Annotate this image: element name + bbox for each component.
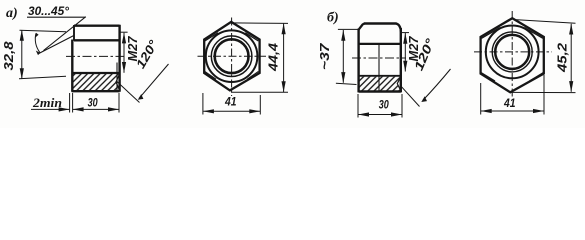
dim 41 (A) right extension: [259, 95, 261, 115]
dim 30 (B) right extension line: [401, 94, 403, 118]
svg-text:б): б): [327, 11, 339, 26]
chamfer circle B: [486, 26, 539, 79]
chamfer note shelf line: [27, 16, 86, 18]
nut A side view: axis centerline: [66, 55, 124, 57]
nut B thread runout line: [378, 45, 380, 92]
dim 30 (A) line with arrows: [73, 108, 119, 110]
dim 32,8 line with arrows: [21, 30, 23, 79]
nut B side view: top flat edge: [364, 22, 397, 24]
nut A thread countersink edges: [116, 73, 120, 90]
nut A side view: left edge: [71, 40, 73, 92]
svg-text:30: 30: [379, 98, 389, 112]
svg-text:а): а): [6, 6, 18, 21]
nut B side view: bottom edge: [359, 90, 401, 92]
corner chamfer cut lower-left B: [481, 72, 495, 81]
centerline vertical B hex: [511, 11, 513, 97]
dim 2min extension line: [69, 93, 71, 113]
svg-text:~37: ~37: [318, 42, 332, 70]
dim 45,2 top extension: [513, 20, 576, 24]
dim 30 (B) line with arrows: [358, 114, 401, 116]
corner chamfer cut upper-left B: [482, 28, 501, 39]
svg-text:2min: 2min: [32, 96, 62, 110]
thread hole circle A: [215, 39, 249, 73]
dim 41 (A) left extension: [202, 93, 204, 115]
dim 30 (A) left extension line: [72, 93, 74, 113]
thread hole circle B: [495, 35, 529, 69]
dim 41 (A) line with arrows: [203, 110, 260, 112]
nut A side view: thread band top edge: [72, 72, 120, 74]
nut B side view: right edge: [400, 28, 402, 92]
dim 41 (B) left extension: [480, 83, 482, 115]
svg-text:45,2: 45,2: [556, 43, 570, 73]
dim M27 (B) extension line: [401, 32, 409, 34]
dim 41 (B) line with arrows: [481, 110, 544, 112]
corner chamfer cut upper-left A: [205, 33, 218, 41]
nut A thread band hatching: [73, 74, 119, 90]
dim 45,2 line with arrows: [570, 24, 572, 92]
nut A side view: right edge: [118, 25, 120, 92]
nut B side view: hex corner line: [359, 43, 401, 45]
nut B thread countersink edges: [397, 76, 401, 91]
dim ~37 line with arrows: [342, 30, 344, 83]
dim 41 (B) right extension: [543, 75, 545, 115]
dim 30 (A) right extension line: [118, 93, 120, 113]
centerline vertical A hex: [231, 18, 233, 97]
corner chamfer cut upper-right A: [245, 33, 258, 41]
chamfer circle A: [206, 30, 258, 82]
dim M27 (A) extension line: [120, 31, 128, 33]
svg-text:41: 41: [503, 96, 516, 110]
svg-text:41: 41: [224, 95, 237, 109]
nut B side view: left edge: [357, 29, 359, 93]
corner chamfer cut lower-right B: [529, 72, 543, 81]
dim 44,4 top extension: [232, 22, 288, 25]
corner chamfer cut lower-left A: [205, 72, 216, 80]
dim 44,4 line with arrows: [283, 24, 285, 92]
dim 120 deg (A) leader arc with arrow: [139, 64, 168, 98]
dim 45,2 bottom extension: [511, 91, 576, 93]
nut A side view: bottom edge: [72, 90, 120, 92]
centerline horizontal A hex: [198, 55, 267, 57]
chamfer angle arc with arrows: [35, 33, 40, 52]
corner chamfer cut upper-right B: [524, 28, 543, 39]
nut A side view: left upper edge at chamfer step: [73, 25, 75, 41]
dim 32,8 bottom extension line: [19, 76, 66, 79]
svg-text:32,8: 32,8: [2, 41, 16, 70]
dim 2min line with arrow: [31, 108, 69, 110]
chamfer edge extension diagonal: [38, 35, 74, 54]
nut B thread band hatching: [360, 77, 401, 91]
nut A side view: top edge: [74, 25, 120, 27]
centerline horizontal B hex: [474, 51, 552, 53]
dim M27 (B) line with arrows: [404, 33, 406, 72]
dim 120 deg (B) cone side extension line: [401, 86, 420, 106]
dim ~37 top extension line: [338, 28, 359, 30]
dim 44,4 bottom extension: [231, 91, 288, 93]
dim 32,8 top extension line: [20, 30, 67, 32]
svg-text:44,4: 44,4: [267, 43, 281, 72]
thread major circle B: [492, 32, 532, 72]
dim 120 deg (B) leader arc with arrow: [423, 69, 451, 100]
nut B side view: right corner arc: [396, 24, 401, 32]
dim ~37 bottom extension line: [336, 83, 357, 84]
chamfer leader diagonal: [44, 17, 86, 51]
corner chamfer cut lower-right A: [247, 72, 258, 80]
nut A thread runout line: [116, 63, 118, 91]
nut B side view: axis centerline: [352, 57, 406, 59]
nut B side view: left chamfer edge: [358, 24, 364, 30]
svg-text:30: 30: [88, 96, 98, 110]
svg-text:30...45°: 30...45°: [28, 6, 69, 18]
nut B side view: thread band top edge: [359, 75, 401, 77]
thread major circle A: [211, 36, 252, 77]
dim M27 (A) line with arrows: [123, 33, 125, 73]
dim 30 (B) left extension line: [357, 94, 359, 118]
hexagon outline B: [481, 18, 544, 92]
dim 120 deg (A) cone side extension line: [117, 82, 139, 103]
hexagon outline A: [204, 22, 259, 91]
nut A side view: hex corner line: [74, 39, 120, 41]
